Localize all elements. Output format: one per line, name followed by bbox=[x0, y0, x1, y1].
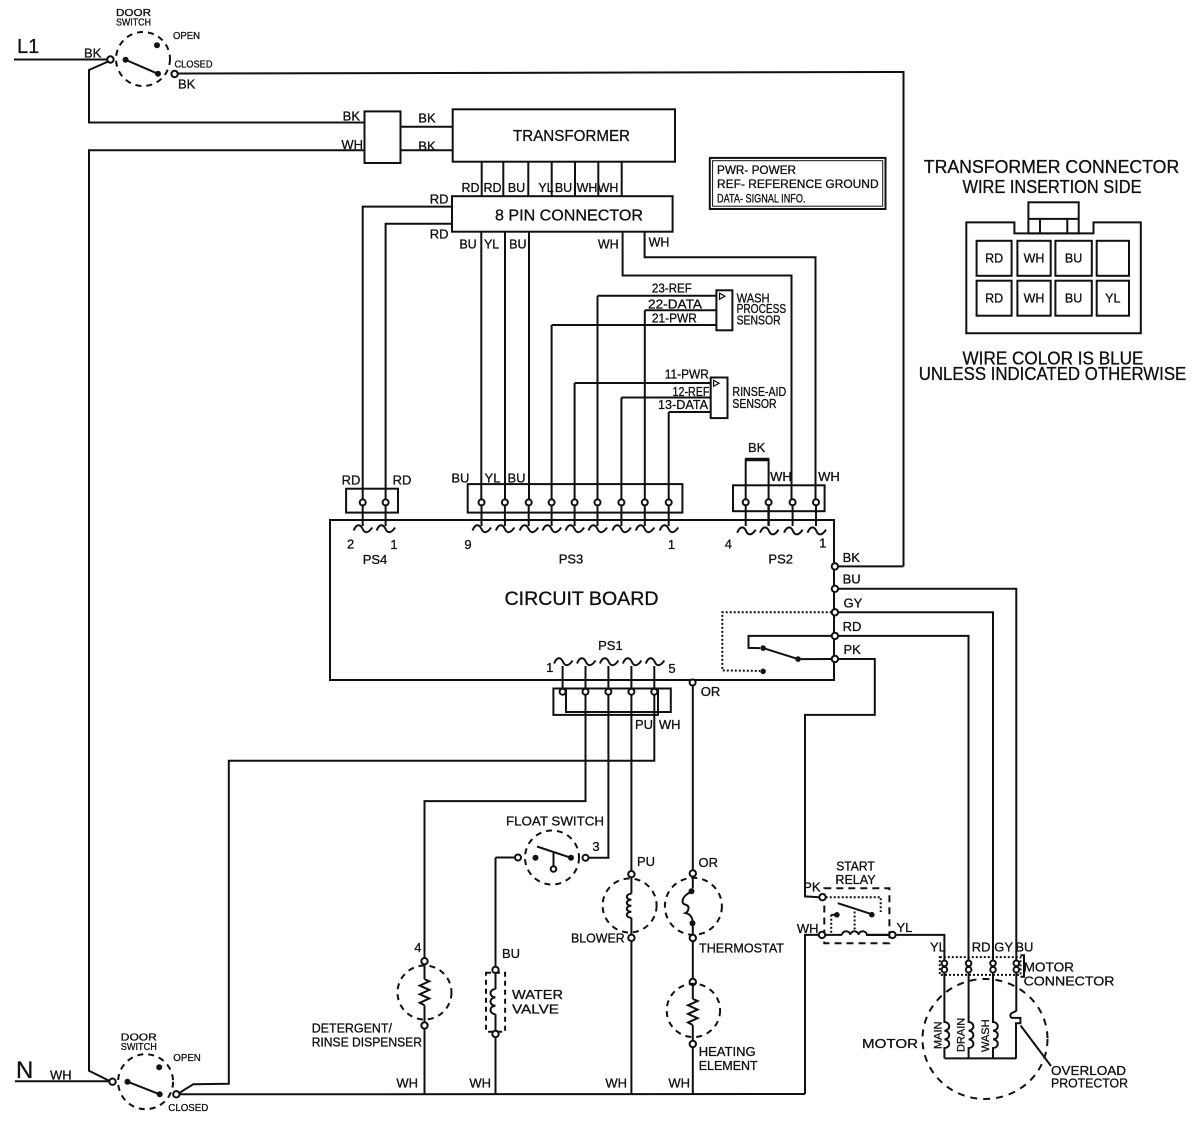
wire GY to motor connector bbox=[838, 612, 993, 960]
relay contact in dotted box (board right) bbox=[722, 612, 831, 674]
svg-text:22-DATA: 22-DATA bbox=[648, 296, 702, 311]
svg-text:WH: WH bbox=[668, 1076, 690, 1091]
overload protector bbox=[1010, 973, 1020, 1059]
wire BK branch down-left from L1 pin bbox=[89, 62, 365, 123]
svg-text:BU: BU bbox=[1065, 292, 1082, 306]
svg-text:BU: BU bbox=[843, 572, 861, 587]
svg-text:WH: WH bbox=[818, 469, 840, 484]
svg-text:SENSOR: SENSOR bbox=[737, 313, 781, 327]
svg-text:OPEN: OPEN bbox=[173, 1053, 201, 1064]
svg-text:PWR- POWER: PWR- POWER bbox=[717, 163, 796, 177]
svg-text:BLOWER: BLOWER bbox=[571, 931, 625, 946]
svg-text:ELEMENT: ELEMENT bbox=[699, 1058, 758, 1073]
svg-text:WH: WH bbox=[605, 1076, 627, 1091]
node OR pin on board bbox=[690, 680, 696, 686]
BK jumper bridge PS2 pins 4-3 bbox=[746, 460, 769, 500]
svg-text:21-PWR: 21-PWR bbox=[652, 311, 697, 326]
svg-text:YL: YL bbox=[1105, 292, 1120, 306]
svg-text:YL: YL bbox=[484, 238, 499, 252]
svg-text:WH: WH bbox=[396, 1076, 418, 1091]
svg-text:WASH: WASH bbox=[980, 1019, 992, 1052]
svg-text:WH: WH bbox=[770, 469, 792, 484]
svg-text:MOTOR: MOTOR bbox=[1024, 960, 1074, 975]
svg-text:PROTECTOR: PROTECTOR bbox=[1051, 1076, 1128, 1091]
wire PU PS1 pin4 to blower bbox=[630, 695, 632, 872]
svg-text:4: 4 bbox=[725, 537, 732, 552]
rinse-aid sensor bbox=[575, 367, 787, 500]
node L1 bbox=[17, 36, 39, 58]
thermostat bbox=[665, 855, 784, 956]
svg-text:CIRCUIT BOARD: CIRCUIT BOARD bbox=[505, 588, 659, 610]
connector PS4 bbox=[342, 473, 412, 568]
wire WH water valve to bus bbox=[495, 1037, 497, 1094]
transformer secondary stubs (7 wires) bbox=[461, 162, 621, 197]
svg-text:TRANSFORMER CONNECTOR: TRANSFORMER CONNECTOR bbox=[924, 157, 1180, 177]
svg-text:1: 1 bbox=[390, 537, 397, 552]
svg-text:1: 1 bbox=[668, 537, 675, 552]
motor drain winding bbox=[969, 973, 974, 1059]
wire WH (8-pin to PS2 pin1) bbox=[645, 232, 816, 500]
motor connector bbox=[940, 940, 1115, 989]
svg-text:8 PIN CONNECTOR: 8 PIN CONNECTOR bbox=[495, 208, 643, 225]
svg-text:REF- REFERENCE GROUND: REF- REFERENCE GROUND bbox=[717, 177, 879, 191]
svg-text:RD: RD bbox=[342, 473, 361, 488]
svg-text:WH: WH bbox=[797, 921, 819, 936]
svg-text:DRAIN: DRAIN bbox=[956, 1018, 968, 1052]
svg-text:SWITCH: SWITCH bbox=[116, 18, 151, 29]
svg-text:OR: OR bbox=[701, 684, 721, 699]
svg-text:OPEN: OPEN bbox=[173, 31, 200, 42]
svg-text:BU: BU bbox=[451, 471, 469, 486]
svg-text:GY: GY bbox=[844, 596, 863, 611]
connector PS2 bbox=[725, 440, 840, 567]
svg-text:BU: BU bbox=[508, 181, 525, 195]
wire RD (8-pin to PS4 pin1) bbox=[386, 224, 453, 500]
wire WH PS1 pin5 to left rail bbox=[179, 695, 654, 1093]
board right edge pins bbox=[832, 563, 838, 662]
wire WH (8-pin to PS2 pin2) bbox=[623, 232, 792, 500]
wire PS1 pin2 to detergent dispenser bbox=[425, 695, 586, 959]
wire YL start relay to motor connector bbox=[896, 935, 945, 961]
wash process sensor bbox=[552, 280, 787, 499]
wire BU (8-pin to PS3 pin9) bbox=[480, 232, 482, 500]
circuit board bbox=[330, 520, 834, 680]
svg-text:YL: YL bbox=[897, 920, 913, 935]
svg-text:23-REF: 23-REF bbox=[652, 280, 692, 295]
door switch S2 (bottom) bbox=[109, 1033, 208, 1115]
svg-text:YL: YL bbox=[930, 940, 946, 955]
wire WH bottom bus bbox=[180, 1093, 806, 1095]
svg-text:MAIN: MAIN bbox=[933, 1021, 945, 1049]
svg-text:4: 4 bbox=[414, 940, 421, 955]
wire PK to start relay bbox=[805, 659, 875, 897]
svg-text:RD: RD bbox=[972, 940, 991, 955]
svg-text:BU: BU bbox=[1015, 940, 1033, 955]
wire RD (8-pin to PS4 pin2) bbox=[363, 207, 453, 500]
svg-text:CONNECTOR: CONNECTOR bbox=[1024, 974, 1115, 989]
svg-text:BK: BK bbox=[748, 440, 766, 455]
svg-text:WH: WH bbox=[50, 1068, 72, 1083]
svg-text:YL: YL bbox=[485, 471, 501, 486]
svg-text:MOTOR: MOTOR bbox=[862, 1036, 918, 1051]
connector PS3 bbox=[451, 471, 682, 567]
svg-text:BU: BU bbox=[1065, 252, 1082, 266]
svg-text:BK: BK bbox=[178, 77, 196, 92]
svg-text:SENSOR: SENSOR bbox=[732, 397, 776, 411]
svg-text:RD: RD bbox=[483, 181, 501, 195]
motor bbox=[862, 973, 1128, 1100]
svg-text:WATER: WATER bbox=[512, 987, 563, 1002]
wire WH start relay to bus bbox=[805, 935, 819, 1094]
door switch S1 (top) bbox=[107, 8, 212, 92]
svg-text:WH: WH bbox=[341, 137, 363, 152]
float switch bbox=[496, 814, 605, 885]
overload protector callout bbox=[1021, 1026, 1051, 1067]
svg-text:VALVE: VALVE bbox=[512, 1002, 559, 1017]
svg-text:PS4: PS4 bbox=[363, 552, 388, 567]
svg-text:PK: PK bbox=[803, 880, 821, 895]
motor wash winding bbox=[993, 973, 998, 1059]
svg-text:BU: BU bbox=[509, 238, 526, 252]
svg-text:BU: BU bbox=[507, 471, 525, 486]
svg-text:WH: WH bbox=[1024, 252, 1045, 266]
wire WH blower to bus bbox=[630, 941, 632, 1094]
svg-text:3: 3 bbox=[592, 839, 599, 854]
svg-text:RINSE DISPENSER: RINSE DISPENSER bbox=[312, 1034, 422, 1049]
svg-text:WH: WH bbox=[649, 236, 670, 250]
svg-text:11-PWR: 11-PWR bbox=[665, 367, 709, 382]
svg-text:OR: OR bbox=[699, 855, 719, 870]
svg-text:UNLESS INDICATED OTHERWISE: UNLESS INDICATED OTHERWISE bbox=[919, 364, 1187, 384]
svg-text:HEATING: HEATING bbox=[699, 1044, 756, 1059]
svg-text:BK: BK bbox=[418, 110, 436, 125]
svg-text:RD: RD bbox=[393, 473, 412, 488]
svg-text:CLOSED: CLOSED bbox=[175, 60, 213, 71]
wire BK label (L1 side) bbox=[84, 46, 102, 61]
svg-text:YL: YL bbox=[538, 181, 553, 195]
wire YL (8-pin to PS3 pin8) bbox=[504, 232, 506, 500]
wire BK plug to transformer (lower) bbox=[401, 149, 453, 151]
svg-text:GY: GY bbox=[994, 940, 1013, 955]
wire PS1 pin3 to float switch terminal 3 bbox=[589, 695, 609, 858]
transformer T1 bbox=[453, 109, 675, 161]
svg-text:RD: RD bbox=[985, 292, 1003, 306]
svg-text:BK: BK bbox=[343, 109, 361, 124]
svg-text:1: 1 bbox=[546, 660, 553, 675]
svg-text:PU: PU bbox=[637, 854, 655, 869]
svg-text:L1: L1 bbox=[17, 36, 39, 58]
connector PS1 bbox=[546, 638, 680, 732]
water valve bbox=[486, 967, 563, 1038]
svg-text:FLOAT SWITCH: FLOAT SWITCH bbox=[506, 814, 604, 829]
svg-text:THERMOSTAT: THERMOSTAT bbox=[699, 941, 784, 956]
svg-text:WH: WH bbox=[659, 717, 681, 732]
svg-text:BK: BK bbox=[84, 46, 102, 61]
connector 8 PIN CONNECTOR bbox=[452, 196, 673, 232]
legend box bbox=[710, 158, 886, 209]
svg-text:BK: BK bbox=[418, 139, 436, 154]
svg-text:RELAY: RELAY bbox=[835, 872, 876, 887]
svg-text:RD: RD bbox=[430, 226, 449, 241]
svg-text:5: 5 bbox=[668, 661, 675, 676]
svg-text:1: 1 bbox=[819, 536, 826, 551]
svg-text:WH: WH bbox=[598, 238, 619, 252]
svg-text:BU: BU bbox=[502, 946, 520, 961]
wire WH heating element to bus bbox=[692, 1047, 694, 1094]
sidebar: transformer connector wire insertion side bbox=[919, 157, 1187, 384]
svg-text:RD: RD bbox=[985, 252, 1003, 266]
svg-text:CLOSED: CLOSED bbox=[168, 1103, 208, 1114]
svg-text:PS1: PS1 bbox=[598, 638, 623, 653]
wire BU to motor connector bbox=[838, 589, 1016, 961]
wire RD to motor connector bbox=[838, 636, 968, 961]
wire L1 lead bbox=[14, 59, 107, 61]
wire BK plug to transformer (upper) bbox=[401, 126, 453, 128]
svg-text:WIRE INSERTION SIDE: WIRE INSERTION SIDE bbox=[963, 177, 1142, 197]
blower bbox=[571, 854, 657, 946]
svg-text:WH: WH bbox=[598, 181, 619, 195]
node N bbox=[16, 1057, 72, 1084]
wire BK pin to top bus bbox=[838, 565, 903, 567]
svg-text:RD: RD bbox=[461, 181, 479, 195]
svg-text:TRANSFORMER: TRANSFORMER bbox=[513, 128, 630, 145]
detergent dispenser bbox=[312, 940, 452, 1049]
svg-text:WH: WH bbox=[577, 181, 598, 195]
motor windings common bbox=[944, 1057, 1016, 1059]
svg-text:PS2: PS2 bbox=[768, 552, 793, 567]
connector (transformer primary plug) bbox=[341, 109, 436, 164]
motor main winding bbox=[944, 973, 949, 1059]
svg-text:BK: BK bbox=[843, 550, 861, 565]
wire BU (8-pin to PS3 pin7) bbox=[528, 232, 530, 500]
svg-text:9: 9 bbox=[464, 537, 471, 552]
svg-text:BU: BU bbox=[555, 181, 572, 195]
svg-text:WH: WH bbox=[1024, 292, 1045, 306]
svg-text:13-DATA: 13-DATA bbox=[658, 397, 708, 412]
heating element bbox=[667, 979, 758, 1073]
svg-text:PS3: PS3 bbox=[559, 552, 584, 567]
wire OR to thermostat bbox=[692, 686, 694, 871]
svg-text:BU: BU bbox=[459, 238, 476, 252]
svg-text:DATA- SIGNAL INFO.: DATA- SIGNAL INFO. bbox=[717, 192, 806, 206]
svg-text:PK: PK bbox=[844, 642, 862, 657]
svg-text:DETERGENT/: DETERGENT/ bbox=[312, 1020, 393, 1035]
wire BU float switch to water valve bbox=[495, 858, 497, 967]
wire N lead bbox=[15, 1080, 109, 1082]
svg-text:N: N bbox=[16, 1057, 33, 1084]
svg-text:WH: WH bbox=[469, 1076, 491, 1091]
svg-text:SWITCH: SWITCH bbox=[121, 1042, 157, 1053]
wire BK top bus to right bbox=[178, 72, 904, 566]
svg-text:PU: PU bbox=[635, 717, 653, 732]
start relay bbox=[797, 859, 913, 944]
wire WH dispenser to bus bbox=[424, 1029, 426, 1094]
svg-text:2: 2 bbox=[347, 537, 354, 552]
svg-text:RD: RD bbox=[843, 619, 862, 634]
wire OR thermostat to heating element bbox=[692, 941, 694, 979]
wire WH left rail bbox=[89, 150, 365, 1081]
svg-text:RD: RD bbox=[430, 191, 449, 206]
